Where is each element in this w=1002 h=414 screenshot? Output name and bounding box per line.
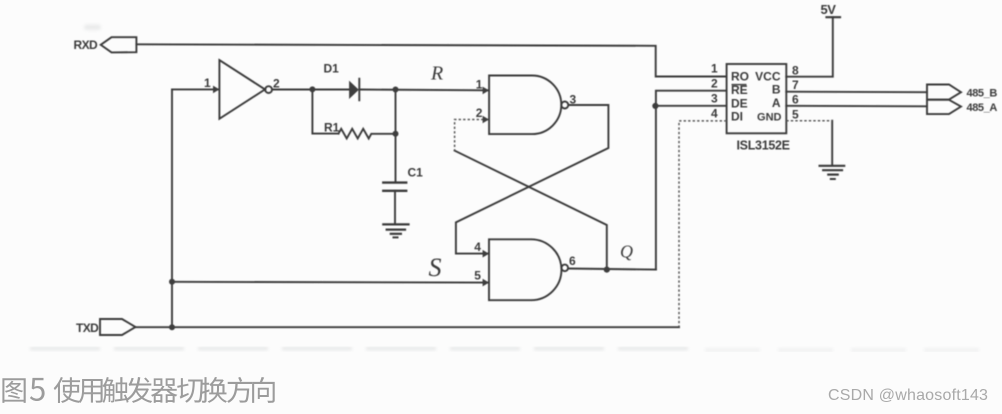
svg-text:RXD: RXD	[74, 38, 98, 52]
svg-text:R: R	[430, 63, 443, 85]
svg-text:6: 6	[569, 254, 576, 268]
svg-text:Q: Q	[620, 242, 633, 262]
svg-text:GND: GND	[757, 112, 782, 124]
svg-text:R1: R1	[324, 121, 340, 135]
svg-text:6: 6	[792, 93, 799, 107]
svg-text:D1: D1	[324, 62, 340, 76]
svg-text:DE: DE	[731, 97, 748, 111]
svg-text:3: 3	[711, 92, 718, 106]
svg-text:ISL3152E: ISL3152E	[737, 139, 790, 153]
svg-text:5: 5	[792, 108, 799, 122]
svg-text:VCC: VCC	[755, 70, 781, 84]
svg-text:DI: DI	[731, 110, 743, 124]
svg-text:C1: C1	[408, 166, 424, 180]
svg-text:4: 4	[474, 240, 481, 254]
svg-text:1: 1	[476, 78, 483, 92]
svg-text:2: 2	[476, 106, 483, 120]
svg-text:485_B: 485_B	[967, 88, 998, 100]
svg-text:5: 5	[474, 269, 481, 283]
svg-text:1: 1	[711, 62, 718, 76]
svg-text:4: 4	[711, 107, 718, 121]
svg-text:1: 1	[204, 76, 211, 90]
svg-text:7: 7	[792, 78, 799, 92]
svg-text:A: A	[772, 96, 781, 110]
svg-text:TXD: TXD	[76, 321, 99, 335]
svg-text:8: 8	[792, 64, 799, 78]
svg-text:2: 2	[711, 77, 718, 91]
svg-text:5V: 5V	[821, 2, 837, 17]
svg-text:RO: RO	[731, 70, 749, 84]
svg-text:2: 2	[273, 77, 280, 91]
svg-text:S: S	[429, 253, 442, 282]
svg-text:3: 3	[570, 93, 577, 107]
svg-text:B: B	[772, 83, 781, 97]
svg-text:485_A: 485_A	[967, 102, 998, 114]
